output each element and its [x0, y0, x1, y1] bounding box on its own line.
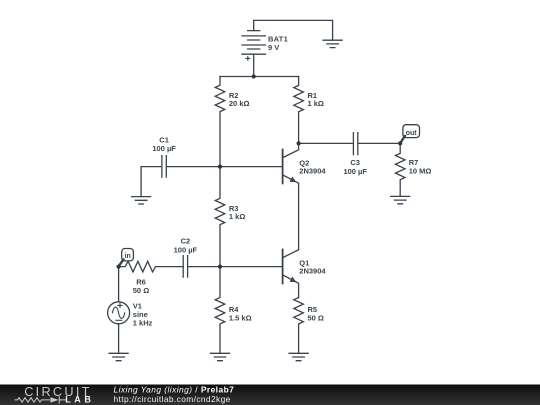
resistor R5: [294, 298, 304, 354]
svg-text:in: in: [125, 253, 131, 260]
svg-text:9 V: 9 V: [268, 43, 279, 52]
voltage source V1: [108, 267, 130, 354]
svg-text:50 Ω: 50 Ω: [308, 313, 324, 322]
capacitor C2: [183, 256, 220, 278]
wire top rail from battery to ground: [254, 20, 333, 40]
svg-text:20 kΩ: 20 kΩ: [229, 99, 250, 108]
ground top-right: [323, 40, 342, 47]
node out junction: [398, 141, 402, 145]
svg-text:100 µF: 100 µF: [152, 144, 176, 153]
svg-text:100 µF: 100 µF: [174, 245, 198, 254]
wire battery to top junction: [253, 54, 255, 76]
wire collector rail to C3: [299, 142, 354, 144]
battery BAT1: [242, 31, 265, 61]
svg-text:http://circuitlab.com/cnd2kge: http://circuitlab.com/cnd2kge: [114, 394, 231, 404]
Q1 emitter arrow: [290, 277, 297, 283]
svg-text:1 kΩ: 1 kΩ: [308, 99, 324, 108]
ground for R7: [391, 196, 410, 203]
svg-text:R7: R7: [409, 158, 419, 167]
resistor R3: [215, 167, 225, 267]
node battery junction: [252, 74, 256, 78]
wire base rail to Q2: [220, 166, 283, 168]
svg-text:50 Ω: 50 Ω: [133, 286, 149, 295]
transistor Q2: [283, 143, 299, 249]
wire lower rail to Q1 base: [220, 266, 283, 268]
svg-text:C2: C2: [181, 236, 191, 245]
svg-text:1.5 kΩ: 1.5 kΩ: [229, 313, 252, 322]
logo resistor and diode: [15, 396, 67, 403]
svg-text:Lixing Yang (lixing) / Prelab7: Lixing Yang (lixing) / Prelab7: [114, 385, 235, 395]
node base junction: [218, 165, 222, 169]
resistor R2: [215, 77, 225, 167]
svg-text:2N3904: 2N3904: [299, 167, 326, 176]
Q2 emitter arrow: [290, 177, 297, 183]
svg-text:10 MΩ: 10 MΩ: [409, 167, 432, 176]
node in flag: [119, 249, 134, 267]
svg-text:C3: C3: [350, 158, 360, 167]
svg-text:2N3904: 2N3904: [299, 267, 326, 276]
node out flag: [400, 125, 419, 143]
node in junction: [117, 265, 121, 269]
wire top junction rail: [220, 76, 299, 78]
resistor R7: [395, 143, 405, 196]
svg-text:1 kΩ: 1 kΩ: [229, 212, 245, 221]
ground for C1: [132, 197, 151, 204]
node collector junction: [297, 141, 301, 145]
node lower rail junction: [218, 265, 222, 269]
transistor Q1: [283, 250, 299, 298]
logo diode triangle: [50, 397, 58, 402]
resistor R1: [294, 77, 304, 144]
capacitor C1: [141, 156, 220, 197]
svg-text:LAB: LAB: [65, 395, 94, 405]
svg-text:out: out: [406, 130, 418, 137]
resistor R6: [119, 261, 184, 272]
svg-text:100 µF: 100 µF: [343, 167, 367, 176]
footer bar: [0, 385, 540, 405]
ground for R4: [211, 353, 230, 360]
ground for R5: [289, 353, 308, 360]
svg-text:1 kHz: 1 kHz: [133, 319, 153, 328]
resistor R4: [215, 267, 225, 354]
capacitor C3: [353, 133, 400, 155]
ground for V1: [109, 353, 128, 360]
